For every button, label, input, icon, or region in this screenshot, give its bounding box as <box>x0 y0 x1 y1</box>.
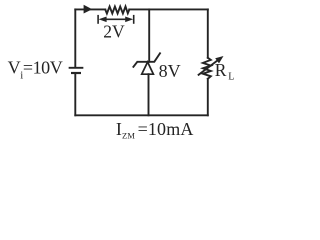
resistor R series (zigzag) <box>105 7 129 14</box>
wire left vertical above battery <box>74 9 76 67</box>
current direction arrow on top wire <box>84 5 93 14</box>
wire top right segment <box>129 8 208 10</box>
wire middle vertical above zener <box>148 9 150 61</box>
wire left vertical below battery <box>74 74 76 115</box>
svg-text:2V: 2V <box>103 21 125 41</box>
dimension line 2V <box>104 18 128 20</box>
variable resistor arrow line <box>199 60 218 74</box>
zener diode bar with bent ends <box>133 53 160 67</box>
wire right vertical above RL <box>207 9 209 57</box>
dimension bar right <box>133 16 135 23</box>
dimension arrowhead right <box>125 17 133 23</box>
resistor RL (vertical zigzag) <box>203 58 211 79</box>
battery long plate <box>70 67 83 69</box>
wire middle vertical below zener <box>148 74 150 115</box>
battery short plate <box>72 72 80 74</box>
wire right vertical below RL <box>207 79 209 116</box>
dimension arrowhead left <box>99 17 107 23</box>
variable resistor arrowhead <box>215 56 223 63</box>
dimension bar left <box>97 16 99 23</box>
svg-text:8V: 8V <box>159 61 181 81</box>
zener diode triangle (open) <box>142 62 154 74</box>
wire bottom <box>75 114 208 116</box>
wire top left segment <box>75 8 105 10</box>
